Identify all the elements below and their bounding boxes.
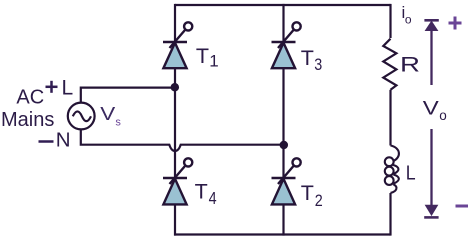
- svg-text:AC: AC: [16, 87, 44, 109]
- svg-text:3: 3: [314, 55, 322, 74]
- svg-text:4: 4: [209, 188, 217, 208]
- svg-text:L: L: [406, 162, 416, 185]
- svg-text:T: T: [301, 181, 314, 205]
- svg-text:1: 1: [209, 52, 218, 71]
- svg-text:V: V: [423, 99, 439, 120]
- svg-text:Mains: Mains: [1, 109, 54, 131]
- svg-text:R: R: [400, 52, 420, 77]
- svg-text:T: T: [195, 180, 208, 204]
- svg-text:o: o: [439, 108, 447, 123]
- svg-text:2: 2: [315, 191, 323, 210]
- svg-text:s: s: [115, 116, 121, 128]
- svg-text:T: T: [196, 44, 209, 68]
- svg-text:L: L: [62, 77, 74, 100]
- svg-text:V: V: [100, 103, 116, 124]
- svg-text:T: T: [301, 46, 314, 70]
- svg-text:o: o: [405, 12, 412, 26]
- svg-text:N: N: [56, 128, 71, 151]
